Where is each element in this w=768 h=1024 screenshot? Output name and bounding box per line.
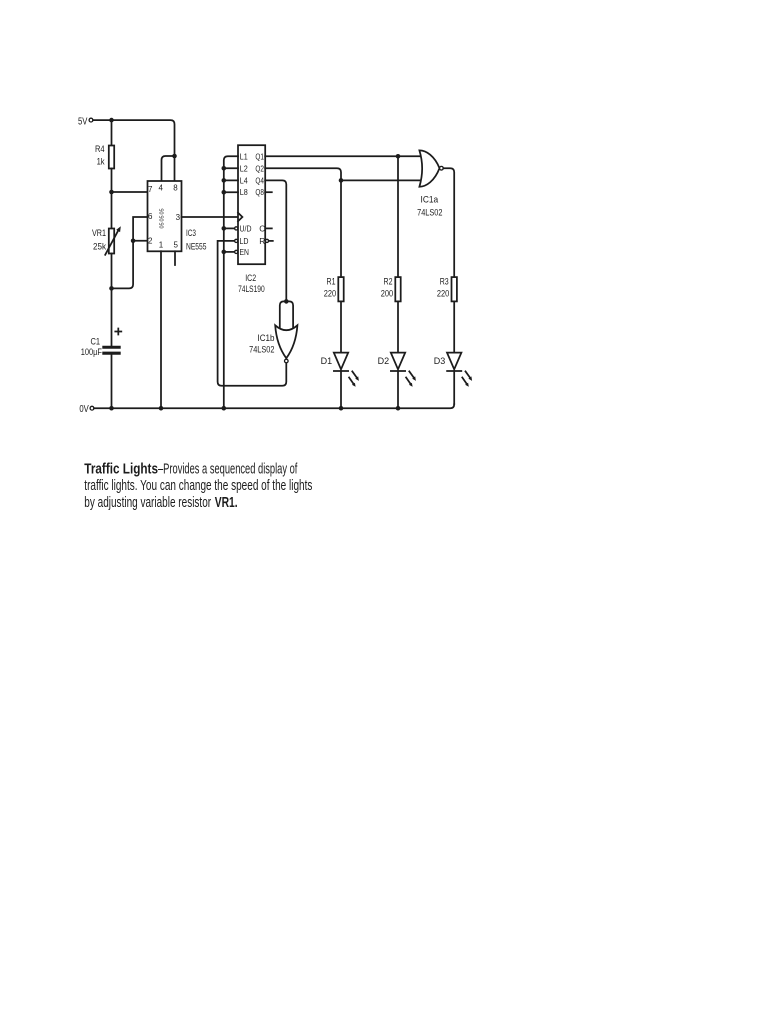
svg-text:IC3: IC3 (186, 228, 196, 239)
svg-text:L4: L4 (240, 175, 248, 185)
node U/D junction (222, 226, 227, 231)
terminal 5V (78, 116, 93, 127)
svg-text:6: 6 (148, 212, 153, 221)
node pin1/0V junction (159, 406, 164, 411)
svg-text:Q1: Q1 (255, 151, 264, 161)
wire pins 6-2 bracket (112, 217, 148, 288)
wire pin 4 branch (162, 156, 175, 181)
wire R1 to D1 (340, 301, 342, 352)
svg-text:8: 8 (173, 184, 178, 193)
svg-text:05: 05 (160, 208, 166, 214)
svg-text:IC2: IC2 (245, 273, 256, 284)
svg-text:C1: C1 (91, 337, 101, 347)
svg-text:25k: 25k (93, 242, 106, 252)
svg-text:IC1a: IC1a (421, 194, 439, 205)
wire U/D stub (224, 227, 235, 229)
svg-text:05: 05 (160, 215, 166, 221)
ic IC3 NE555 (148, 181, 207, 253)
wire Q4 to IC1b (265, 180, 286, 301)
node Q4/IC1b junction (284, 299, 289, 304)
svg-text:IC1b: IC1b (258, 333, 275, 344)
svg-text:Traffic Lights: Traffic Lights (84, 461, 158, 477)
node 5V/R4 junction (109, 118, 114, 123)
svg-text:LD: LD (240, 236, 249, 246)
svg-text:5V: 5V (78, 116, 88, 127)
wire VR1 to C1 (111, 254, 113, 346)
svg-text:L2: L2 (240, 163, 248, 173)
resistor R3 (437, 276, 457, 301)
wire 5V rail to pin 8 (93, 120, 175, 181)
led D1 (321, 353, 359, 387)
svg-text:Q8: Q8 (255, 187, 264, 197)
svg-text:traffic lights. You can change: traffic lights. You can change the speed… (84, 478, 312, 494)
svg-text:R: R (259, 236, 265, 246)
node D2/0V junction (396, 406, 401, 411)
wire R3 to D3 (453, 301, 455, 352)
wire pin 5 stub (174, 251, 176, 265)
svg-text:L8: L8 (240, 187, 248, 197)
svg-text:74LS02: 74LS02 (249, 344, 274, 355)
svg-text:by adjusting variable resistor: by adjusting variable resistor (84, 495, 211, 511)
wire Q2 to IC1a (265, 168, 421, 180)
wire EN stub (224, 251, 235, 253)
resistor R1 (324, 276, 344, 301)
svg-text:3: 3 (176, 213, 181, 222)
wire D1 to 0V (340, 371, 342, 408)
svg-text:1: 1 (159, 241, 164, 250)
wire Q1 to R2 (397, 156, 399, 277)
wire pin 3 to clock (182, 216, 238, 218)
wire L8 stub (224, 191, 238, 193)
wire R stub (269, 240, 273, 242)
gate IC1a 74LS02 (417, 150, 443, 218)
wire 5V to R4 (111, 120, 113, 145)
wire pin 1 to 0V (160, 251, 162, 408)
node pin4/pin8 junction (172, 154, 177, 159)
svg-text:7: 7 (148, 185, 153, 194)
svg-text:U/D: U/D (240, 224, 252, 234)
wire R2 to D2 (397, 301, 399, 352)
potentiometer VR1 (92, 226, 121, 255)
svg-text:D3: D3 (434, 356, 446, 366)
svg-text:R3: R3 (440, 276, 449, 286)
svg-text:100µF: 100µF (81, 347, 103, 357)
svg-text:R1: R1 (327, 276, 336, 286)
ic IC2 74LS190 (235, 145, 269, 295)
wire Q1 to IC1a (265, 155, 421, 157)
wire ground bus (224, 156, 238, 408)
svg-text:220: 220 (324, 289, 336, 299)
wire Q2 to R1 (340, 180, 342, 277)
wire D2 to 0V (397, 371, 399, 408)
led D3 (434, 353, 472, 387)
wire LD to IC1b output (218, 241, 287, 386)
node pin2 junction (131, 239, 136, 244)
svg-text:74LS02: 74LS02 (417, 207, 442, 218)
node L4 junction (222, 178, 227, 183)
svg-text:L1: L1 (240, 151, 248, 161)
wire pin 7 (112, 191, 148, 193)
node Q1/R2 junction (396, 154, 401, 159)
svg-text:4: 4 (159, 184, 164, 193)
svg-text:D1: D1 (321, 356, 333, 366)
node bus/0V junction (222, 406, 227, 411)
node bracket junction (109, 286, 114, 291)
svg-text:74LS190: 74LS190 (238, 284, 265, 295)
svg-text:0V: 0V (79, 404, 89, 415)
wire C stub (265, 227, 272, 229)
node pin7 junction (109, 190, 114, 195)
wire R4 to VR1 (111, 169, 113, 229)
svg-text:220: 220 (437, 289, 449, 299)
node Q2/R1 junction (339, 178, 344, 183)
resistor R2 (381, 276, 401, 301)
capacitor C1 (81, 329, 122, 358)
gate IC1b 74LS02 (249, 301, 297, 362)
svg-text:1k: 1k (97, 157, 105, 167)
node L8 junction (222, 190, 227, 195)
wire L4 stub (224, 179, 238, 181)
node D1/0V junction (339, 406, 344, 411)
caption (84, 461, 312, 511)
svg-text:2: 2 (148, 237, 153, 246)
svg-text:05: 05 (160, 222, 166, 228)
node C1/0V junction (109, 406, 114, 411)
wire Q8 stub (265, 191, 272, 193)
svg-text:EN: EN (240, 247, 250, 257)
wire D3 to 0V (453, 371, 455, 404)
svg-text:Q2: Q2 (255, 163, 264, 173)
svg-text:R4: R4 (95, 144, 105, 154)
wire L2 stub (224, 167, 238, 169)
node L2 junction (222, 166, 227, 171)
svg-text:5: 5 (174, 241, 179, 250)
wire 0V rail (94, 404, 454, 408)
resistor R4 (95, 144, 114, 169)
led D2 (378, 353, 416, 387)
svg-text:R2: R2 (384, 276, 393, 286)
svg-text:VR1.: VR1. (215, 495, 238, 511)
svg-text:Q4: Q4 (255, 175, 264, 185)
svg-text:D2: D2 (378, 356, 390, 366)
wire C1 to 0V (111, 355, 113, 409)
svg-text:200: 200 (381, 289, 393, 299)
wire IC1a output to R3 (443, 168, 454, 277)
node EN junction (222, 250, 227, 255)
svg-text:VR1: VR1 (92, 228, 106, 238)
svg-text:–Provides a sequenced display: –Provides a sequenced display of (158, 461, 298, 477)
terminal 0V (79, 404, 94, 415)
svg-text:NE555: NE555 (186, 242, 207, 253)
